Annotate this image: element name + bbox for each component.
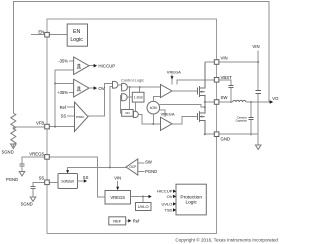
svg-text:Ref: Ref: [60, 105, 67, 110]
wire driver 1 to high-side gate: [172, 90, 198, 92]
svg-text:SGND: SGND: [2, 149, 14, 154]
wire G4 to driver 2: [139, 114, 161, 124]
node VFB bus junction: [54, 126, 56, 128]
capacitor C-BST bootstrap: [228, 84, 233, 86]
comparator U1 (hiccup UV): [74, 57, 89, 75]
wire protection inputs arrows: [173, 190, 176, 193]
svg-text:EN: EN: [38, 30, 44, 35]
svg-text:Control Logic: Control Logic: [121, 77, 144, 82]
op-amp driver 1 (high side): [161, 85, 173, 98]
box REF: [109, 217, 126, 225]
ground SGND (SS cap): [30, 197, 36, 201]
wire tON top: [153, 96, 160, 101]
wire SS stub: [67, 115, 75, 117]
wire tON lower stub: [160, 110, 165, 117]
node bus junctions: [129, 86, 131, 88]
pin GND: [214, 132, 219, 137]
svg-text:tON: tON: [150, 106, 157, 110]
box Protection Logic: [176, 184, 206, 215]
wire VO output: [246, 101, 270, 103]
svg-text:SW: SW: [145, 160, 152, 165]
svg-text:OCP: OCP: [129, 165, 136, 169]
box UVLO: [136, 203, 152, 211]
svg-text:VIN: VIN: [221, 56, 228, 61]
capacitor C-VIN input: [255, 89, 261, 91]
svg-text:VREGS: VREGS: [29, 152, 44, 157]
svg-text:ON: ON: [125, 111, 130, 115]
wire VFB pin to PWM comparator: [49, 126, 74, 128]
svg-text:SS: SS: [61, 114, 67, 119]
pin SW: [214, 100, 219, 105]
svg-text:SW: SW: [221, 95, 229, 100]
svg-text:Softstart: Softstart: [61, 179, 74, 183]
svg-text:VIN: VIN: [114, 176, 121, 181]
svg-text:VREGA: VREGA: [167, 70, 181, 75]
svg-text:PGND: PGND: [145, 169, 157, 174]
wire OCP output to softstart: [68, 167, 126, 170]
svg-text:UVLO: UVLO: [161, 201, 172, 206]
svg-text:Protection: Protection: [180, 194, 202, 200]
IC boundary box: [47, 19, 216, 234]
wire 1-shot to gate G4: [134, 102, 136, 111]
svg-text:TSD: TSD: [164, 208, 172, 213]
gate G1: [113, 81, 118, 88]
box 1-shot: [132, 92, 144, 102]
box minimum ON: [122, 110, 133, 117]
box Softstart: [58, 174, 78, 189]
wire OCP SW input stub: [138, 162, 145, 164]
gate G2: [122, 83, 128, 91]
op-amp driver 2 (low side): [161, 117, 173, 130]
comparator OCP: [126, 159, 138, 175]
svg-text:-35%: -35%: [58, 59, 68, 64]
wire feedback loop VO to divider: [13, 2, 269, 114]
svg-text:HICCUP: HICCUP: [98, 63, 115, 68]
svg-text:OV: OV: [167, 194, 173, 199]
wire tON bottom to driver 2 input: [152, 114, 154, 124]
svg-text:Logic: Logic: [70, 37, 83, 43]
pin VBST: [214, 78, 219, 83]
svg-text:SGND: SGND: [21, 202, 33, 207]
gate G3: [122, 94, 128, 101]
svg-text:Logic: Logic: [185, 200, 197, 206]
wire G3 output to 1-shot: [127, 96, 132, 98]
wire SS pin to external capacitor: [33, 182, 45, 186]
pin VFB: [45, 124, 50, 129]
svg-text:1 shot: 1 shot: [134, 95, 143, 99]
svg-text:VO: VO: [272, 96, 279, 101]
svg-text:EN: EN: [73, 29, 80, 35]
wire -35% stub: [69, 60, 74, 62]
svg-text:REF: REF: [113, 218, 122, 223]
wire VBST external: [219, 80, 231, 85]
wire REF output: [126, 220, 129, 222]
wire VREGS output: [131, 196, 149, 198]
wire +35% stub: [69, 92, 74, 94]
wire VREGS pin to external capacitor: [22, 157, 45, 164]
wire OCP output riser to control logic: [110, 86, 113, 167]
transistor Q1 high-side MOSFET: [198, 62, 205, 102]
wire VIN arrow into VREGS box: [117, 181, 119, 187]
op-amp PWM comparator: [75, 102, 89, 132]
wire GND internal: [205, 133, 215, 135]
wire PWM output to control logic: [88, 83, 113, 116]
wire SW external: [219, 101, 233, 103]
box VREGS regulator: [105, 191, 131, 205]
svg-text:UVLO: UVLO: [138, 204, 149, 209]
svg-text:SS: SS: [39, 176, 45, 181]
wire softstart SS output: [78, 180, 84, 182]
wire VIN source line: [257, 51, 259, 91]
wire GND external: [219, 134, 258, 145]
gate G4: [134, 111, 139, 117]
wire Ref stub: [67, 106, 75, 108]
svg-text:PWM: PWM: [76, 115, 84, 119]
wire SS pin to softstart: [49, 181, 58, 183]
svg-text:+35%: +35%: [57, 90, 68, 95]
pin EN: [45, 32, 50, 37]
wire G3 inputs: [120, 96, 121, 113]
wire EN pin to EN Logic: [49, 34, 67, 36]
transistor Q2 low-side MOSFET: [198, 102, 205, 134]
wire HICCUP output: [89, 65, 94, 67]
wire junction down to ON box: [129, 87, 131, 109]
resistor R2: [11, 129, 16, 148]
wire divider tap to VFB pin: [13, 126, 44, 128]
svg-text:OV: OV: [98, 86, 104, 91]
comparator U2 (OV): [74, 79, 89, 97]
wire control bus to driver 1: [128, 86, 161, 88]
wire OV output: [89, 87, 94, 89]
svg-text:VIN: VIN: [252, 44, 259, 49]
svg-text:Copyright © 2016, Texas Instru: Copyright © 2016, Texas Instruments Inco…: [175, 237, 278, 243]
wire VREGS branch to UVLO: [142, 197, 144, 203]
wire VIN internal to drain: [205, 61, 215, 63]
wire VBST to driver 1: [177, 80, 215, 85]
capacitor C-OUT ceramic: [250, 102, 252, 117]
svg-text:VREGS: VREGS: [110, 195, 125, 200]
wire VREGS pin internal to regulator: [49, 157, 105, 197]
box EN Logic: [67, 24, 87, 46]
svg-text:Ref: Ref: [133, 218, 140, 223]
svg-text:GND: GND: [221, 136, 231, 141]
capacitor C-VREGS: [19, 163, 24, 165]
ground SGND (divider): [11, 144, 17, 149]
wire G1 to G2: [118, 84, 122, 86]
wire tON SW sense: [160, 105, 205, 108]
resistor R1: [11, 113, 16, 129]
svg-text:Capacitor: Capacitor: [235, 118, 247, 122]
svg-text:VREGA: VREGA: [161, 112, 175, 117]
circle tON generator: [147, 101, 160, 114]
wire driver 2 to low-side gate: [172, 116, 198, 123]
svg-text:PGND: PGND: [6, 177, 18, 182]
capacitor C-SS: [30, 185, 35, 187]
wire junction down to 1-shot: [139, 87, 141, 92]
pin VIN: [214, 60, 219, 65]
wire VFB bus branch to OV comparator: [55, 83, 74, 85]
wire OCP PGND input stub: [138, 171, 145, 173]
pin SS: [45, 180, 50, 185]
ground PGND (VREGS cap): [19, 172, 25, 176]
ground output: [255, 145, 261, 149]
wire VIN external: [219, 61, 258, 63]
wire EN stub: [31, 34, 45, 36]
inductor L1: [233, 100, 246, 102]
pin VREGS: [45, 155, 50, 160]
svg-text:VFB: VFB: [36, 120, 44, 125]
svg-text:SS: SS: [83, 175, 89, 180]
wire VREGA supply to driver 1: [171, 75, 173, 85]
svg-text:VBST: VBST: [221, 75, 233, 80]
wire VFB bus to comparators: [55, 70, 74, 127]
wire SW internal: [205, 101, 215, 103]
